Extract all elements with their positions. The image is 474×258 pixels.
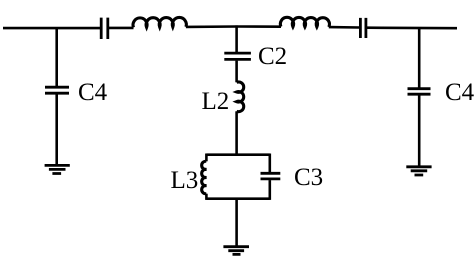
svg-text:L3: L3 (171, 167, 199, 194)
wire (329, 26, 359, 29)
svg-text:C3: C3 (294, 164, 323, 191)
capacitor C3 (plates) (261, 173, 281, 179)
wire C2 to L2 (235, 61, 238, 83)
wire left shunt branch upper (55, 27, 58, 86)
wire right shunt branch lower (418, 95, 421, 166)
wire main horizontal line left segment (3, 27, 100, 30)
wire right shunt branch upper (418, 27, 421, 88)
wire tank left edge upper stub (205, 154, 208, 162)
series capacitor (output side) (360, 18, 366, 38)
wire tank bottom edge (206, 197, 269, 200)
wire left shunt branch lower (55, 94, 58, 165)
capacitor C2 (plates) (224, 53, 251, 59)
ground left (45, 165, 70, 173)
inductor L2 (3 loops bulging right) (237, 82, 244, 112)
wire tank rectangle top edge (206, 153, 269, 156)
wire tank left edge lower stub (205, 194, 208, 200)
capacitor C4 right (plates) (408, 89, 431, 95)
svg-text:C2: C2 (258, 43, 287, 70)
wire tank right edge upper stub (268, 154, 271, 173)
wire (109, 27, 134, 30)
wire through middle junction (186, 25, 281, 28)
wire tank right edge lower stub (268, 180, 271, 200)
wire tank bottom to ground (235, 199, 238, 247)
wire L2 to tank top (235, 111, 238, 154)
svg-text:C4: C4 (445, 79, 474, 106)
series inductor (right, 4 loops) (280, 17, 329, 27)
capacitor C4 left (plates) (45, 87, 69, 93)
inductor L3 (4 loops bulging left) (202, 161, 207, 194)
wire to output (367, 26, 457, 29)
svg-text:C4: C4 (78, 79, 108, 106)
ground right (406, 167, 431, 175)
ground middle (223, 247, 249, 255)
wire middle branch junction to C2 (235, 25, 238, 52)
series capacitor (input side) (101, 18, 108, 39)
series inductor (left, 4 loops) (133, 17, 186, 27)
svg-text:L2: L2 (202, 88, 230, 115)
